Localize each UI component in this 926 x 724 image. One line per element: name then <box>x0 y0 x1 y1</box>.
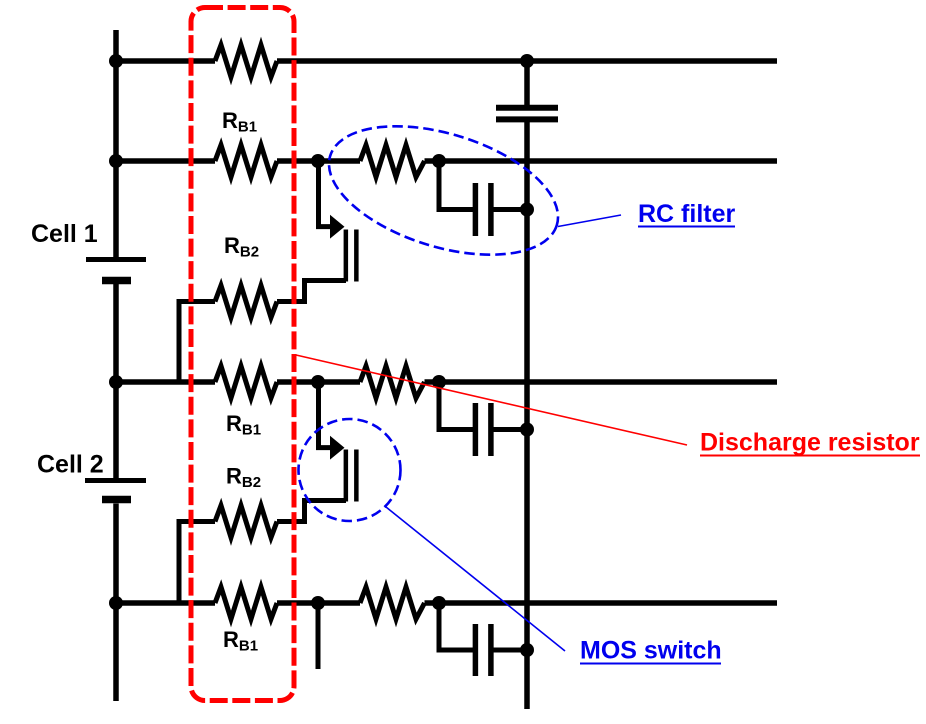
left battery rail (bottom segment) <box>113 504 119 702</box>
wire W4 right <box>425 600 778 606</box>
node W3/left rail <box>109 375 123 389</box>
resistor RB1 (wire W3) <box>215 366 277 398</box>
node W2 gate tap <box>311 154 325 168</box>
RC cap 3 lead from node <box>439 603 473 650</box>
label Discharge resistor underline <box>700 455 920 457</box>
blue dashed circle (MOS switch) <box>299 419 401 521</box>
red dashed highlight box (discharge resistors) <box>191 8 294 701</box>
RC cap 1 plate A <box>473 183 479 236</box>
RC cap 2 plate A <box>473 403 479 456</box>
node rail/RC cap 2 <box>520 423 534 437</box>
RB2 cell2 right lead to MOSFET source <box>277 501 346 522</box>
node W4 RC tap <box>432 596 446 610</box>
svg-text:Cell 1: Cell 1 <box>31 220 98 248</box>
blue dashed ellipse (RC filter) <box>314 102 574 279</box>
resistor RB1 (wire W1) <box>215 45 277 77</box>
gate stub below wire W4 <box>316 603 321 669</box>
wire W1 right <box>277 58 777 64</box>
svg-text:RC filter: RC filter <box>638 200 736 228</box>
node W3 RC tap <box>432 375 446 389</box>
MOSFET Q2 gate wire <box>319 382 332 448</box>
resistor RB1 (wire W2) <box>215 145 277 177</box>
RC cap 1 lead to rail <box>493 207 527 212</box>
RB2 cell1 left lead <box>179 302 215 383</box>
RB2 cell1 right lead to MOSFET source <box>277 281 346 302</box>
blue annotation line (MOS switch) <box>386 507 565 651</box>
blue annotation line (RC filter) <box>558 215 621 227</box>
label RC filter underline <box>638 226 735 228</box>
wire W2 middle <box>277 158 360 164</box>
MOSFET Q2 left bar <box>344 450 349 502</box>
RC cap 1 lead from node <box>439 161 473 210</box>
node W1/left rail <box>109 54 123 68</box>
cell 2 battery short plate <box>102 496 131 504</box>
RC filter resistor (wire W2) <box>360 145 425 177</box>
MOSFET Q2 right bar <box>354 450 359 502</box>
wire W1 left <box>116 58 215 64</box>
wire W3 right <box>425 379 778 385</box>
MOSFET Q1 gate arrow <box>330 215 345 239</box>
left battery rail (middle segment) <box>113 284 119 478</box>
MOSFET Q1 left bar <box>344 230 349 282</box>
resistor RB1 (wire W4) <box>215 587 277 619</box>
RC cap 2 lead from node <box>439 382 473 430</box>
RC cap 3 plate B <box>488 624 494 676</box>
svg-text:Discharge resistor: Discharge resistor <box>700 429 920 457</box>
wire W2 left <box>116 158 215 164</box>
RC cap 3 lead to rail <box>493 648 527 653</box>
MOSFET Q2 gate arrow <box>330 436 345 460</box>
node W2/left rail <box>109 154 123 168</box>
right sense rail (above capacitor C0) <box>524 61 530 106</box>
red annotation line (discharge resistor) <box>296 355 687 445</box>
RC cap 2 plate B <box>488 403 494 456</box>
cell 1 battery long plate <box>86 257 146 262</box>
RC cap 2 lead to rail <box>493 427 527 432</box>
node W2 RC tap <box>432 154 446 168</box>
RC filter resistor (wire W3) <box>360 366 425 398</box>
left battery rail (top segment) <box>113 30 119 257</box>
node W4/left rail <box>109 596 123 610</box>
wire W2 right <box>425 158 778 164</box>
MOSFET Q1 gate wire <box>319 161 332 227</box>
cell 2 battery long plate <box>85 478 146 483</box>
wire W3 middle <box>277 379 360 385</box>
node rail/W1 <box>520 54 534 68</box>
label MOS switch underline <box>580 663 721 665</box>
node W4 gate tap <box>311 596 325 610</box>
right sense rail (below capacitor C0) <box>524 120 530 709</box>
resistor RB2 (cell 2) <box>215 506 277 538</box>
node rail/RC cap 1 <box>520 203 534 217</box>
wire W4 left <box>116 600 215 606</box>
svg-text:MOS switch: MOS switch <box>580 637 722 665</box>
wire W3 left <box>116 379 215 385</box>
MOSFET Q1 right bar <box>354 230 359 282</box>
svg-text:Cell 2: Cell 2 <box>37 451 104 479</box>
wire W4 middle <box>277 600 360 606</box>
RC cap 1 plate B <box>488 183 494 236</box>
node rail/RC cap 3 <box>520 643 534 657</box>
capacitor C0 plate 2 <box>496 116 558 122</box>
RC filter resistor (wire W4) <box>360 587 425 619</box>
capacitor C0 plate 1 (top, on rail) <box>496 105 558 111</box>
resistor RB2 (cell 1) <box>215 286 277 318</box>
cell 1 battery short plate <box>102 277 131 285</box>
RC cap 3 plate A <box>473 624 479 676</box>
RB2 cell2 left lead <box>179 522 215 604</box>
node W3 gate tap <box>311 375 325 389</box>
